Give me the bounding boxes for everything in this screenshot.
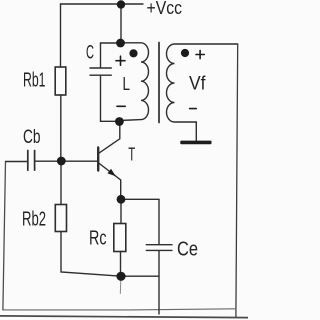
svg-text:Rb2: Rb2	[22, 209, 46, 231]
wire emitter node to Ce	[121, 198, 159, 200]
wire Cb right lead / base wire	[35, 160, 98, 162]
junction dot emitter node	[117, 195, 126, 204]
resistor Rc	[114, 224, 126, 252]
resistor Rb1	[55, 67, 66, 95]
wire C top lead	[100, 43, 102, 67]
svg-text:Rb1: Rb1	[23, 70, 46, 92]
polarity - (tank bottom)	[117, 105, 125, 107]
transistor T emitter arrow	[108, 169, 116, 176]
svg-text:T: T	[128, 145, 135, 165]
wire Rc top lead	[120, 199, 122, 224]
capacitor Cb plates	[28, 151, 35, 171]
svg-text:Rc: Rc	[89, 228, 107, 250]
wire right rail	[236, 44, 238, 317]
transistor T base bar	[97, 148, 99, 171]
transformer core	[158, 43, 160, 123]
svg-text:L: L	[123, 74, 131, 94]
inductor L (primary coil)	[120, 43, 149, 121]
capacitor Ce plates	[146, 245, 172, 251]
polarity + (Vf top)	[196, 50, 204, 58]
transistor T emitter	[99, 164, 120, 200]
wire Rb1 top lead	[60, 4, 62, 67]
capacitor C plates	[90, 68, 111, 75]
polarity + (tank top)	[116, 56, 125, 65]
transistor T collector	[99, 122, 119, 153]
wire Rb2 bottom lead	[61, 232, 159, 277]
wire C bottom lead	[101, 76, 118, 122]
svg-text:+Vcc: +Vcc	[147, 0, 183, 18]
wire Ce bottom lead	[158, 251, 160, 314]
wire Vcc drop to tank	[120, 4, 122, 39]
wire bottom rail	[3, 309, 236, 310]
ground	[180, 141, 211, 145]
wire Rb2 top lead	[60, 161, 62, 205]
wire Rc bottom lead	[120, 252, 122, 277]
svg-text:C: C	[86, 43, 94, 64]
junction dot tank top	[116, 39, 125, 48]
svg-text:Ce: Ce	[177, 239, 198, 261]
phase dot Vf	[181, 49, 189, 57]
svg-text:Cb: Cb	[23, 127, 41, 148]
wire top rail	[61, 3, 144, 5]
junction dot Cb node	[57, 157, 66, 166]
phase dot L	[129, 49, 137, 57]
junction dot tank bottom	[115, 117, 124, 126]
scan border bottom edge	[0, 316, 248, 318]
wire Rb1 bottom lead	[60, 95, 62, 157]
resistor Rb2	[55, 205, 66, 232]
wire left feedback vertical	[3, 162, 6, 310]
wire Ce top lead	[158, 200, 160, 245]
junction dot bottom node	[116, 272, 125, 281]
junction dot top rail	[117, 0, 125, 8]
svg-text:Vf: Vf	[189, 74, 206, 95]
inductor Vf (secondary coil)	[167, 44, 238, 122]
wire Cb left lead	[6, 161, 28, 163]
wire secondary to ground	[195, 122, 197, 140]
polarity - (Vf bottom)	[190, 108, 197, 110]
wire tank top	[101, 42, 121, 44]
wire stub below bottom node	[119, 280, 122, 294]
